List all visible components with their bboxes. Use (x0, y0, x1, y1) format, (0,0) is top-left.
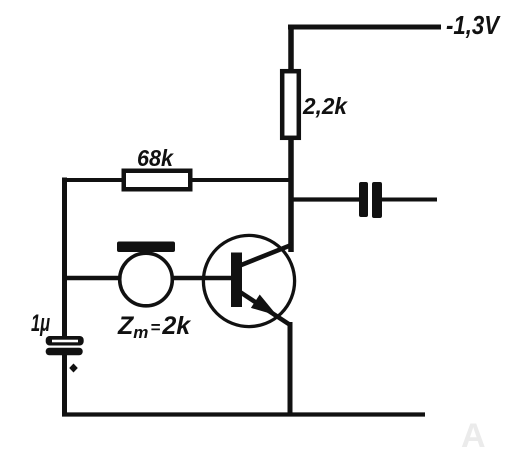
resistor R2 68k body (124, 171, 191, 190)
svg-text:Zm=2k: Zm=2k (117, 312, 191, 342)
svg-text:1μ: 1μ (31, 310, 50, 337)
wire left rail below C1 (62, 354, 67, 416)
svg-text:-1,3V: -1,3V (446, 10, 501, 40)
wire ground rail (62, 412, 425, 416)
transistor Q1 body circle (203, 235, 294, 326)
wire base rail right segment (172, 276, 232, 281)
wire collector node to output capacitor (289, 197, 359, 201)
capacitor C1 top plate (46, 336, 84, 346)
wire emitter to ground rail (288, 322, 293, 416)
capacitor C2 left plate (359, 182, 368, 217)
wire base rail left segment (62, 276, 120, 281)
transistor Q1 collector stroke (240, 245, 293, 266)
transistor Q1 base bar (231, 253, 242, 308)
transistor Q1 emitter stroke (240, 292, 291, 326)
wire output lead (382, 198, 437, 202)
transistor Q1 emitter arrowhead (251, 295, 277, 316)
wire supply to R1 top (288, 25, 294, 74)
microphone carbon bar (117, 242, 175, 253)
wire top supply rail (288, 25, 441, 30)
capacitor C1 polarity mark (69, 364, 78, 373)
capacitor C2 right plate (372, 182, 382, 218)
svg-text:A: A (461, 417, 486, 455)
wire R1 bottom to collector node (288, 138, 294, 252)
microphone M1 body (120, 253, 173, 306)
resistor R1 2,2k body (282, 71, 299, 138)
wire 68k feedback rail (62, 178, 290, 182)
capacitor C1 bottom plate (46, 348, 83, 356)
svg-text:2,2k: 2,2k (302, 93, 348, 119)
wire left vertical rail upper (62, 178, 67, 339)
svg-text:68k: 68k (137, 145, 174, 171)
